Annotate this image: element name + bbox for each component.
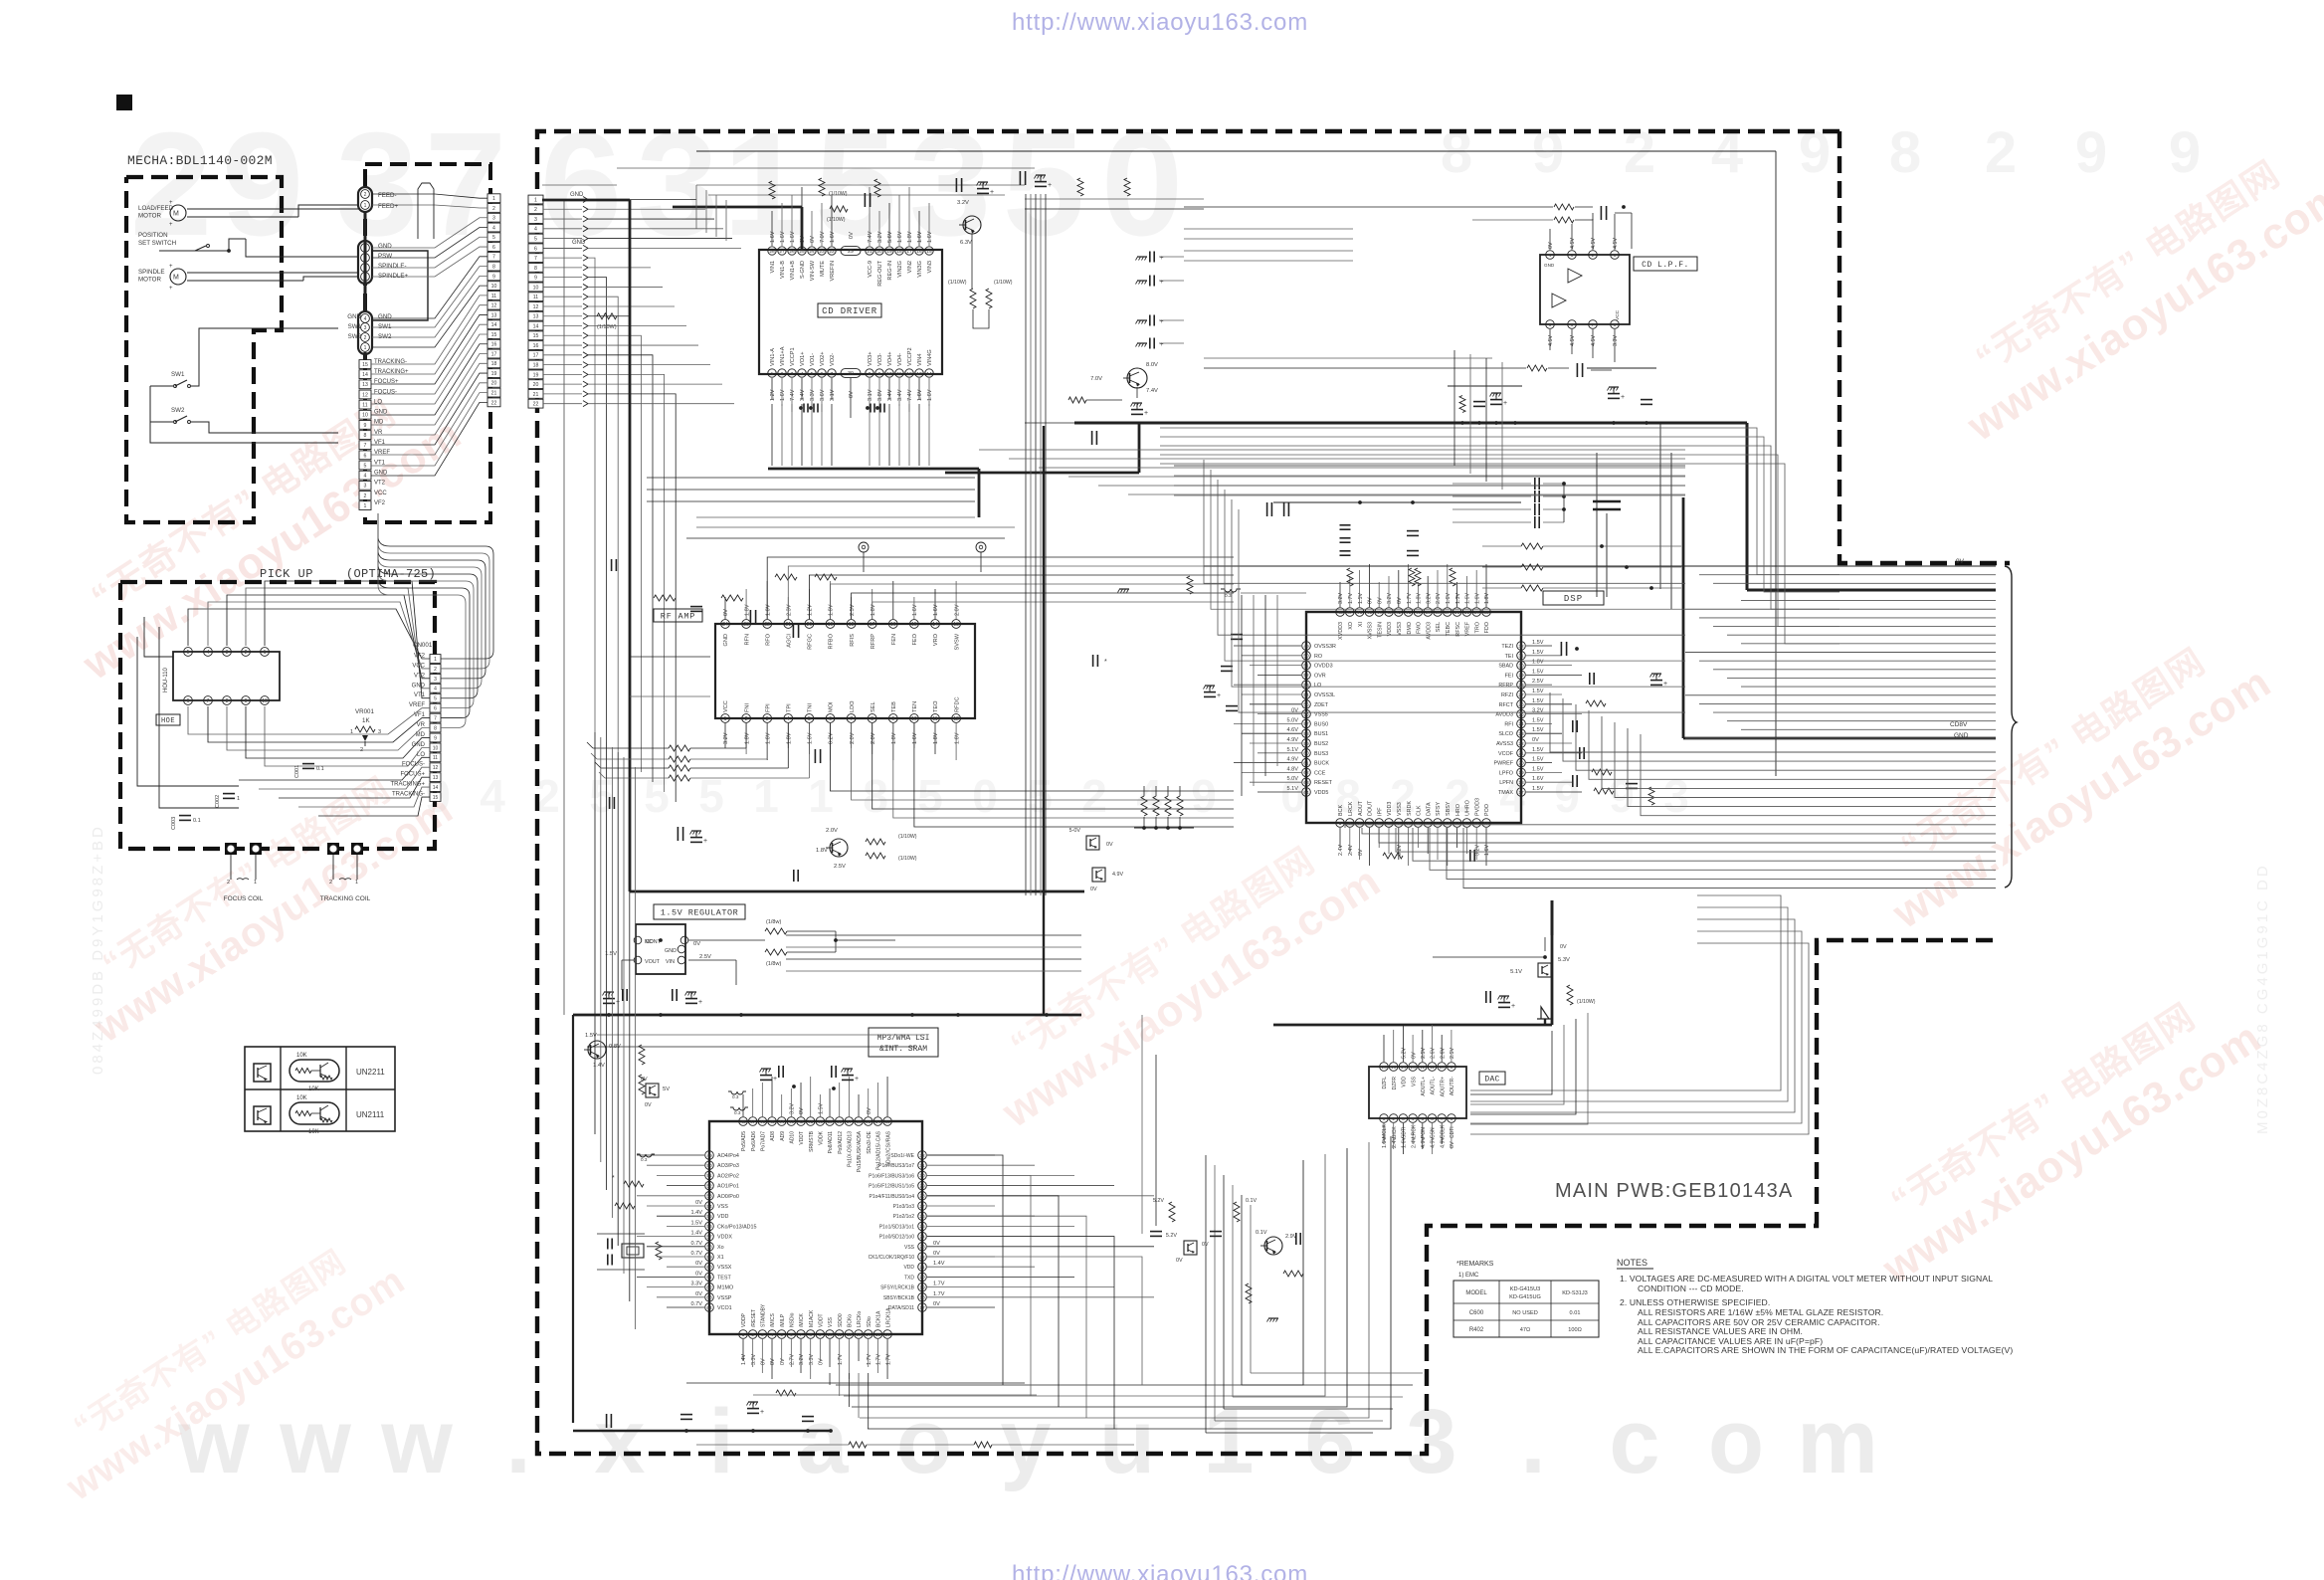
svg-text:VDDP: VDDP (741, 1312, 747, 1327)
svg-text:11: 11 (362, 403, 367, 409)
svg-text:0V: 0V (867, 1107, 872, 1114)
svg-text:FEED+: FEED+ (378, 203, 399, 210)
svg-text:3.3V: 3.3V (809, 1354, 815, 1365)
svg-text:9: 9 (1609, 770, 1635, 822)
svg-text:CCLK: CCLK (1440, 1124, 1446, 1138)
svg-text:GND: GND (347, 313, 361, 320)
svg-text:32: 32 (919, 1153, 925, 1159)
svg-text:LPFO: LPFO (1499, 770, 1513, 776)
svg-text:11: 11 (533, 295, 538, 300)
svg-text:3.2V: 3.2V (799, 1354, 805, 1365)
svg-text:11: 11 (491, 294, 496, 299)
svg-text:SFSY/LRCK1B: SFSY/LRCK1B (880, 1285, 915, 1291)
svg-text:34: 34 (875, 1119, 881, 1125)
svg-text:.: . (1520, 1391, 1546, 1492)
svg-text:ZDET: ZDET (1314, 702, 1329, 708)
svg-text:12: 12 (847, 1332, 853, 1338)
svg-text:26: 26 (1518, 702, 1524, 708)
svg-text:FEED-: FEED- (378, 192, 397, 199)
svg-text:P1o1/SD13/1o1: P1o1/SD13/1o1 (879, 1224, 915, 1230)
svg-text:SPINDLE-: SPINDLE- (378, 263, 407, 270)
svg-text:7.4V: 7.4V (1146, 388, 1158, 394)
svg-text:5.0V: 5.0V (1286, 776, 1298, 782)
svg-text:VO1-: VO1- (810, 353, 816, 366)
svg-text:(1/10W): (1/10W) (994, 280, 1013, 286)
svg-text:1K: 1K (362, 717, 370, 724)
svg-text:NO USED: NO USED (1512, 1310, 1538, 1316)
svg-text:GND: GND (374, 470, 388, 476)
svg-text:4.9V: 4.9V (1286, 757, 1298, 763)
svg-text:42: 42 (1396, 610, 1402, 616)
svg-text:2: 2 (227, 880, 230, 886)
svg-text:http://www.xiaoyu163.com: http://www.xiaoyu163.com (1012, 1561, 1308, 1580)
svg-text:VIN2: VIN2 (907, 261, 913, 273)
svg-text:o: o (896, 1391, 952, 1492)
svg-text:46: 46 (760, 1119, 766, 1125)
svg-text:P1o3/1o3: P1o3/1o3 (893, 1204, 915, 1210)
svg-text:0.7V: 0.7V (690, 1241, 702, 1247)
svg-text:16: 16 (1381, 1065, 1387, 1071)
svg-text:AOUTR-: AOUTR- (1450, 1077, 1455, 1096)
svg-text:SDO0: SDO0 (838, 1313, 844, 1327)
svg-text:AD9: AD9 (780, 1131, 786, 1141)
svg-text:2.4V: 2.4V (1348, 845, 1354, 856)
svg-text:33: 33 (1483, 610, 1489, 616)
svg-text:2: 2 (492, 206, 495, 212)
svg-text:11: 11 (897, 371, 902, 377)
svg-text:1.4V: 1.4V (690, 1231, 702, 1237)
svg-text:1: 1 (364, 203, 367, 209)
svg-text:+: + (1144, 410, 1148, 417)
svg-text:18: 18 (849, 622, 855, 628)
svg-text:27: 27 (1518, 692, 1524, 698)
svg-text:0V: 0V (641, 1077, 648, 1083)
svg-text:/MILP: /MILP (780, 1313, 786, 1327)
svg-text:VO1+: VO1+ (800, 352, 806, 366)
svg-text:+: + (1048, 182, 1052, 189)
svg-text:29: 29 (919, 1183, 925, 1189)
svg-text:VIN1+A: VIN1+A (780, 346, 786, 366)
svg-text:SPINDLE: SPINDLE (138, 269, 164, 276)
svg-text:1.6V: 1.6V (912, 732, 918, 744)
svg-text:VDD3: VDD3 (1387, 802, 1393, 816)
svg-text:15: 15 (1474, 821, 1480, 827)
svg-text:CD8V: CD8V (1950, 721, 1968, 728)
svg-text:1.5V: 1.5V (1358, 593, 1364, 604)
svg-text:3: 3 (364, 325, 367, 331)
svg-text:DZFL: DZFL (1382, 1077, 1388, 1089)
svg-text:BUS2: BUS2 (1314, 741, 1328, 747)
svg-text:3: 3 (226, 650, 229, 656)
svg-text:AOUT: AOUT (1358, 800, 1364, 816)
svg-text:2: 2 (745, 716, 748, 722)
svg-text:2: 2 (781, 371, 784, 377)
svg-text:0V: 0V (799, 1107, 805, 1114)
svg-text:(1/10W): (1/10W) (829, 191, 848, 197)
svg-text:MODEL: MODEL (1465, 1290, 1487, 1296)
svg-text:6: 6 (1304, 1391, 1355, 1492)
svg-text:(1/8w): (1/8w) (766, 961, 781, 967)
svg-text:(1/8w): (1/8w) (766, 919, 781, 925)
svg-text:u: u (1099, 1391, 1155, 1492)
svg-text:3.3V: 3.3V (751, 1354, 757, 1365)
svg-text:XO: XO (1348, 622, 1354, 630)
svg-text:3.2V: 3.2V (723, 732, 729, 744)
svg-text:0.01: 0.01 (1570, 1310, 1581, 1316)
svg-text:51: 51 (706, 1173, 712, 1179)
svg-text:64: 64 (706, 1305, 712, 1311)
svg-text:4: 4 (480, 770, 505, 822)
svg-text:5-0V: 5-0V (1069, 828, 1081, 834)
svg-text:6: 6 (434, 706, 437, 712)
svg-text:9: 9 (222, 102, 303, 267)
svg-text:1) EMC: 1) EMC (1458, 1273, 1479, 1279)
svg-text:21: 21 (919, 1265, 925, 1271)
svg-text:*: * (612, 1175, 615, 1182)
svg-text:DATA/SD11: DATA/SD11 (888, 1305, 914, 1311)
svg-text:0V: 0V (1450, 1141, 1455, 1148)
svg-text:13: 13 (1454, 821, 1460, 827)
svg-text:9: 9 (2075, 120, 2107, 185)
svg-text:7: 7 (492, 255, 495, 261)
svg-text:1.8V: 1.8V (933, 732, 939, 744)
svg-text:AO2/Po2: AO2/Po2 (717, 1173, 739, 1179)
svg-text:0.7V: 0.7V (690, 1251, 702, 1257)
svg-text:16: 16 (533, 343, 539, 349)
svg-text:2: 2 (1348, 821, 1351, 827)
svg-text:10K: 10K (296, 1095, 307, 1101)
svg-text:10: 10 (1426, 821, 1432, 827)
svg-text:VDDX: VDDX (717, 1235, 732, 1241)
svg-text:SVSW: SVSW (954, 633, 960, 650)
svg-text:20: 20 (807, 622, 813, 628)
svg-text:Po10/-OS/AD13: Po10/-OS/AD13 (848, 1131, 854, 1167)
svg-text:12: 12 (533, 304, 539, 310)
svg-text:SW2: SW2 (378, 333, 392, 340)
svg-text:5: 5 (1378, 821, 1381, 827)
svg-text:3: 3 (492, 216, 495, 222)
svg-text:Po7/AD7: Po7/AD7 (761, 1131, 767, 1151)
svg-text:LDO: LDO (850, 700, 856, 712)
svg-text:6: 6 (534, 246, 537, 252)
svg-text:3.2V: 3.2V (1338, 593, 1344, 604)
svg-text:45: 45 (769, 1119, 775, 1125)
svg-text:20: 20 (533, 382, 539, 388)
svg-text:1.5V: 1.5V (1532, 717, 1544, 723)
svg-text:6: 6 (1388, 821, 1391, 827)
svg-text:VSS: VSS (828, 1316, 834, 1327)
svg-text:Po8/AD11: Po8/AD11 (828, 1131, 834, 1154)
svg-text:1: 1 (724, 716, 727, 722)
svg-text:VIN1+B: VIN1+B (790, 261, 796, 281)
svg-text:22: 22 (919, 1255, 925, 1261)
svg-text:1.6V: 1.6V (927, 389, 933, 401)
svg-text:47Ω: 47Ω (1520, 1327, 1530, 1333)
svg-text:OVDD3: OVDD3 (1314, 664, 1333, 670)
svg-text:5: 5 (534, 236, 537, 242)
svg-text:RFZI: RFZI (1501, 692, 1513, 698)
svg-text:GND: GND (1954, 732, 1969, 739)
svg-text:STANDBY: STANDBY (761, 1303, 767, 1327)
svg-text:3.1V: 3.1V (830, 389, 836, 401)
svg-text:7.4V: 7.4V (907, 389, 913, 401)
svg-text:5: 5 (187, 650, 190, 656)
svg-text:48: 48 (1337, 610, 1343, 616)
svg-text:7.0V: 7.0V (1090, 376, 1102, 382)
svg-text:1: 1 (808, 770, 834, 822)
svg-text:ALL RESISTANCE VALUES ARE IN O: ALL RESISTANCE VALUES ARE IN OHM. (1638, 1326, 1803, 1336)
svg-text:3: 3 (761, 1332, 764, 1338)
svg-text:C002: C002 (215, 795, 221, 808)
svg-text:6: 6 (364, 453, 367, 459)
svg-text:CKo/Po13/AD15: CKo/Po13/AD15 (717, 1224, 757, 1230)
svg-text:3.4V: 3.4V (800, 389, 806, 401)
svg-text:3: 3 (364, 484, 367, 490)
svg-text:24: 24 (809, 249, 815, 255)
svg-text:3.3V: 3.3V (810, 389, 816, 401)
svg-text:1.8V: 1.8V (907, 231, 913, 243)
svg-text:m: m (1797, 1391, 1878, 1492)
svg-text:0V: 0V (695, 1271, 702, 1277)
svg-text:+: + (1621, 394, 1625, 401)
svg-text:2: 2 (364, 494, 367, 499)
svg-text:VCC: VCC (374, 491, 387, 496)
svg-text:http://www.xiaoyu163.com: http://www.xiaoyu163.com (1012, 9, 1308, 36)
svg-text:TEST: TEST (717, 1275, 731, 1281)
svg-text:0.1: 0.1 (316, 766, 324, 772)
svg-text:3: 3 (1571, 253, 1574, 259)
svg-text:10: 10 (262, 698, 268, 704)
svg-text:12: 12 (433, 765, 439, 771)
svg-text:4: 4 (534, 227, 537, 233)
svg-text:2.7V: 2.7V (790, 1354, 796, 1365)
svg-text:LRCK1A: LRCK1A (885, 1307, 891, 1327)
svg-text:VSS: VSS (1411, 1076, 1417, 1086)
svg-text:0.7V: 0.7V (690, 1301, 702, 1307)
svg-text:3.2V: 3.2V (1397, 845, 1403, 856)
svg-text:0V: 0V (1377, 597, 1383, 604)
svg-text:UHRO: UHRO (1465, 800, 1471, 816)
svg-text:BCKo: BCKo (848, 1314, 854, 1327)
svg-text:13: 13 (953, 622, 959, 628)
svg-text:6: 6 (821, 371, 824, 377)
svg-text:+: + (773, 1076, 777, 1083)
svg-text:VIN3G: VIN3G (917, 261, 923, 278)
svg-text:0.1V: 0.1V (1256, 1230, 1267, 1236)
svg-text:MUTE: MUTE (820, 261, 826, 277)
svg-text:37: 37 (1445, 610, 1451, 616)
svg-text:17: 17 (870, 622, 875, 628)
svg-text:19: 19 (533, 372, 539, 378)
svg-text:31: 31 (1518, 654, 1524, 660)
svg-text:2: 2 (364, 192, 367, 198)
svg-text:CONDITION --- CD MODE.: CONDITION --- CD MODE. (1638, 1284, 1744, 1293)
svg-text:32: 32 (1518, 644, 1524, 650)
svg-text:25: 25 (919, 1224, 925, 1230)
svg-text:1.8V: 1.8V (829, 604, 835, 616)
svg-text:SEL: SEL (1436, 622, 1442, 632)
svg-text:1: 1 (1614, 253, 1617, 259)
svg-text:3.2V: 3.2V (1387, 593, 1393, 604)
svg-text:52: 52 (706, 1183, 712, 1189)
svg-text:VO2-: VO2- (830, 353, 836, 366)
svg-text:55: 55 (706, 1214, 712, 1220)
svg-text:2.0V: 2.0V (850, 732, 856, 744)
svg-text:4.5V: 4.5V (1591, 238, 1597, 249)
svg-text:23: 23 (919, 1245, 925, 1251)
svg-text:.: . (505, 1391, 531, 1492)
svg-text:13: 13 (362, 382, 368, 388)
svg-text:12: 12 (1420, 1065, 1426, 1071)
svg-text:56: 56 (706, 1224, 712, 1230)
svg-text:0.1V: 0.1V (1246, 1198, 1257, 1204)
svg-text:13: 13 (916, 371, 922, 377)
svg-text:2: 2 (1081, 770, 1107, 822)
svg-text:3.1V: 3.1V (868, 389, 873, 401)
svg-text:2.5V: 2.5V (1421, 1048, 1427, 1059)
svg-text:4.5V: 4.5V (1591, 335, 1597, 346)
svg-text:7.4V: 7.4V (868, 231, 873, 243)
svg-text:9: 9 (364, 423, 367, 429)
svg-text:14: 14 (433, 785, 439, 791)
svg-text:AGCI: AGCI (787, 634, 793, 648)
svg-text:0V: 0V (800, 236, 806, 243)
svg-text:14: 14 (533, 323, 539, 329)
svg-text:23: 23 (1518, 731, 1524, 737)
svg-text:1.3V: 1.3V (1455, 593, 1461, 604)
svg-text:LO: LO (374, 399, 382, 405)
svg-text:Po9/AD12: Po9/AD12 (838, 1131, 844, 1154)
svg-text:4: 4 (364, 474, 367, 480)
svg-text:P1o2/1o2: P1o2/1o2 (893, 1214, 915, 1220)
svg-text:SET SWITCH: SET SWITCH (138, 240, 176, 247)
svg-text:RFCT: RFCT (1499, 702, 1514, 708)
svg-text:VSS3: VSS3 (1397, 622, 1403, 636)
svg-text:14: 14 (362, 372, 368, 378)
svg-text:RFO: RFO (765, 633, 771, 645)
svg-text:VSSX: VSSX (717, 1265, 732, 1271)
svg-text:LPFN: LPFN (1499, 780, 1513, 786)
svg-text:18: 18 (533, 362, 539, 368)
svg-text:RFDC: RFDC (954, 696, 960, 712)
svg-text:P1o5/F12/BUS1/1o5: P1o5/F12/BUS1/1o5 (869, 1184, 914, 1190)
svg-text:BCK: BCK (1338, 805, 1344, 816)
svg-text:3: 3 (1358, 821, 1361, 827)
svg-text:26: 26 (919, 1214, 925, 1220)
svg-text:5.0V: 5.0V (1286, 717, 1298, 723)
svg-text:1.7V: 1.7V (838, 1354, 844, 1365)
svg-text:LRCKo: LRCKo (857, 1311, 863, 1327)
svg-text:PWREF: PWREF (1494, 761, 1514, 767)
svg-text:M1ACK: M1ACK (809, 1309, 815, 1327)
svg-text:CD DRIVER: CD DRIVER (822, 306, 877, 316)
svg-text:1.8V: 1.8V (871, 604, 876, 616)
svg-text:0.2V: 0.2V (829, 732, 835, 744)
svg-text:8: 8 (226, 698, 229, 704)
svg-text:0V: 0V (645, 1102, 652, 1108)
svg-text:16: 16 (491, 342, 497, 348)
svg-text:KD-S31J3: KD-S31J3 (1562, 1290, 1588, 1296)
svg-text:VIN4: VIN4 (917, 354, 923, 366)
svg-text:45: 45 (1367, 610, 1373, 616)
svg-text:RFI: RFI (1504, 721, 1513, 727)
svg-text:2: 2 (329, 880, 332, 886)
svg-text:P1o6/F13/BUS3/1o6: P1o6/F13/BUS3/1o6 (869, 1173, 914, 1179)
svg-text:4.5V: 4.5V (1548, 335, 1554, 346)
svg-text:5.1V: 5.1V (1286, 786, 1298, 792)
svg-text:17: 17 (491, 351, 497, 357)
svg-text:19: 19 (491, 371, 497, 377)
svg-text:5: 5 (1421, 1116, 1424, 1122)
svg-text:15: 15 (926, 249, 932, 255)
svg-text:(1/10W): (1/10W) (948, 280, 967, 286)
svg-text:PVDD3: PVDD3 (1474, 798, 1480, 816)
svg-text:22: 22 (829, 249, 835, 255)
svg-text:XI: XI (1358, 622, 1364, 627)
svg-text:2.0V: 2.0V (826, 828, 838, 834)
svg-text:VO4+: VO4+ (887, 352, 893, 366)
svg-text:4.5V: 4.5V (1613, 238, 1619, 249)
svg-text:43: 43 (789, 1119, 795, 1125)
svg-text:LO: LO (1314, 683, 1321, 689)
svg-text:1.7V: 1.7V (876, 1354, 882, 1365)
svg-text:7: 7 (207, 698, 210, 704)
svg-text:w: w (279, 1391, 351, 1492)
svg-text:VOUT: VOUT (645, 959, 661, 965)
svg-text:LOAD/FEED: LOAD/FEED (138, 205, 174, 212)
svg-text:FPI: FPI (765, 703, 771, 712)
svg-text:61: 61 (1303, 760, 1309, 766)
svg-text:1.7V: 1.7V (885, 1354, 891, 1365)
svg-text:OVSS3L: OVSS3L (1314, 692, 1335, 698)
svg-text:2.4V: 2.4V (1338, 845, 1344, 856)
svg-text:TEB: TEB (891, 701, 897, 712)
svg-text:VT1: VT1 (374, 460, 386, 466)
svg-text:20: 20 (876, 249, 882, 255)
svg-text:19: 19 (828, 622, 834, 628)
svg-text:18: 18 (1518, 780, 1524, 786)
svg-text:1.5V: 1.5V (1532, 747, 1544, 753)
svg-text:AO3/Po3: AO3/Po3 (717, 1163, 739, 1169)
svg-text:1: 1 (355, 880, 358, 886)
svg-text:VR001: VR001 (355, 708, 374, 715)
svg-text:CCE: CCE (1314, 770, 1326, 776)
svg-text:3.3V: 3.3V (1613, 335, 1619, 346)
svg-text:16: 16 (884, 1332, 890, 1338)
svg-text:15: 15 (911, 622, 917, 628)
svg-text:4: 4 (364, 316, 367, 322)
svg-text:18: 18 (491, 361, 497, 367)
svg-text:4: 4 (492, 225, 495, 231)
svg-text:1: 1 (534, 197, 537, 203)
svg-text:1.5V: 1.5V (1532, 689, 1544, 694)
svg-text:5: 5 (808, 716, 811, 722)
svg-text:1.5V: 1.5V (1532, 786, 1544, 792)
svg-text:BUS1: BUS1 (1314, 731, 1328, 737)
svg-text:10: 10 (362, 413, 368, 419)
svg-text:41: 41 (1406, 610, 1412, 616)
svg-text:21: 21 (786, 622, 792, 628)
svg-text:8: 8 (492, 264, 495, 270)
svg-text:MECHA:BDL1140-002M: MECHA:BDL1140-002M (127, 153, 273, 168)
svg-text:+: + (760, 1409, 764, 1416)
svg-text:TPI: TPI (787, 703, 793, 712)
svg-text:AD10: AD10 (790, 1131, 796, 1144)
svg-text:VIN1-B: VIN1-B (780, 261, 786, 279)
svg-text:(1/10W): (1/10W) (898, 834, 917, 840)
svg-text:9: 9 (819, 1332, 822, 1338)
svg-text:0V: 0V (849, 391, 855, 398)
